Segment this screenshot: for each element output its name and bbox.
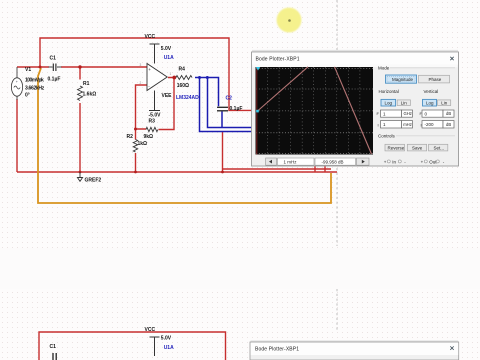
svg-text:2: 2: [140, 81, 142, 85]
svg-text:1kΩ: 1kΩ: [138, 141, 148, 147]
svg-text:LM324AD: LM324AD: [176, 95, 199, 101]
svg-text:C1: C1: [50, 344, 57, 350]
svg-text:I: I: [421, 122, 422, 127]
svg-text:VCC: VCC: [145, 327, 156, 333]
svg-text:C1: C1: [50, 56, 57, 62]
svg-text:Horizontal: Horizontal: [379, 89, 399, 94]
svg-text:Log: Log: [426, 101, 434, 106]
svg-text:Bode Plotter-XBP1: Bode Plotter-XBP1: [256, 57, 300, 63]
svg-text:U1A: U1A: [164, 55, 174, 61]
svg-text:-99.958 dB: -99.958 dB: [322, 160, 344, 165]
svg-text:Out: Out: [429, 159, 437, 164]
svg-text:Log: Log: [385, 101, 393, 106]
svg-text:Bode Plotter-XBP1: Bode Plotter-XBP1: [255, 347, 299, 353]
svg-text:+: +: [421, 159, 424, 164]
svg-text:3.662kHz: 3.662kHz: [25, 86, 45, 92]
svg-text:Phase: Phase: [429, 77, 442, 82]
svg-text:VEE: VEE: [162, 93, 173, 99]
svg-text:1: 1: [170, 72, 172, 76]
svg-text:3: 3: [140, 63, 142, 67]
svg-text:Lin: Lin: [441, 100, 448, 105]
svg-text:0°: 0°: [25, 93, 30, 99]
svg-text:Set...: Set...: [434, 145, 445, 150]
svg-text:0.1µF: 0.1µF: [230, 106, 243, 112]
svg-text:V1: V1: [25, 67, 31, 73]
svg-text:0.1µF: 0.1µF: [48, 77, 61, 83]
svg-text:Reverse: Reverse: [388, 145, 405, 150]
svg-text:Controls: Controls: [378, 134, 396, 139]
svg-text:5.0V: 5.0V: [161, 46, 172, 52]
svg-text:Vertical: Vertical: [424, 89, 439, 94]
svg-text:-5.0V: -5.0V: [149, 112, 162, 118]
svg-text:mHz: mHz: [403, 122, 412, 127]
svg-text:+: +: [384, 159, 387, 164]
svg-text:R3: R3: [149, 119, 156, 125]
svg-text:VCC: VCC: [145, 34, 156, 40]
svg-text:Save: Save: [412, 145, 423, 150]
svg-text:+: +: [148, 67, 151, 72]
svg-text:9kΩ: 9kΩ: [144, 134, 154, 140]
svg-text:U1A: U1A: [164, 345, 174, 351]
svg-text:1.6kΩ: 1.6kΩ: [83, 91, 97, 97]
svg-text:In: In: [392, 159, 396, 164]
svg-text:C2: C2: [226, 95, 233, 101]
svg-text:1 mHz: 1 mHz: [284, 160, 298, 165]
svg-text:Magnitude: Magnitude: [392, 77, 414, 82]
svg-text:dB: dB: [446, 111, 451, 116]
svg-text:dB: dB: [446, 122, 451, 127]
svg-text:5.0V: 5.0V: [161, 336, 172, 342]
svg-text:+: +: [16, 80, 18, 84]
svg-text:Mode: Mode: [378, 66, 390, 71]
svg-text:R2: R2: [127, 134, 134, 140]
svg-text:GREF2: GREF2: [85, 178, 102, 184]
svg-text:Lin: Lin: [401, 100, 408, 105]
svg-text:100mVpk: 100mVpk: [25, 78, 44, 84]
svg-text:-200: -200: [425, 122, 435, 127]
svg-text:I: I: [378, 122, 379, 127]
svg-text:160Ω: 160Ω: [177, 83, 189, 89]
svg-text:R4: R4: [179, 67, 186, 73]
svg-text:GHz: GHz: [404, 111, 412, 116]
svg-text:R1: R1: [83, 81, 90, 87]
